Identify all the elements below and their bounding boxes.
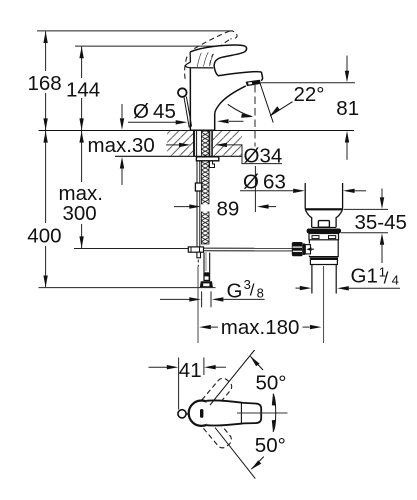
drain neck tab	[318, 221, 329, 228]
dimension 168	[45, 31, 47, 130]
drain slots	[312, 236, 319, 239]
svg-text:300: 300	[63, 202, 97, 225]
svg-text:Ø34: Ø34	[244, 145, 283, 168]
svg-text:50°: 50°	[255, 434, 286, 457]
dimension 35-45	[344, 208, 389, 210]
deck bottom line	[115, 155, 242, 157]
handle top view: dome	[189, 401, 214, 426]
spout underside	[215, 86, 246, 130]
drain taper	[306, 210, 312, 227]
hole edge lines	[193, 131, 195, 156]
bottom 50 leader	[251, 457, 263, 470]
svg-text:max.30: max.30	[88, 134, 155, 157]
pull rod knob	[178, 88, 187, 97]
supply hose braid	[201, 131, 209, 244]
pop-up drain flange	[304, 183, 306, 209]
drain seal flange (black)	[307, 229, 342, 234]
G3/8 nut	[200, 281, 213, 287]
bottom reference line 400	[39, 287, 216, 289]
drain ring nut	[310, 258, 337, 265]
lever left edge	[189, 52, 191, 62]
dimension 81	[346, 56, 348, 72]
visible dashed segment inside lever heel	[210, 54, 213, 65]
rod end pointer	[306, 247, 311, 251]
lever top edge tip and bottom edge with curl into spout top	[190, 45, 263, 80]
rod clip	[195, 183, 201, 191]
svg-text:81: 81	[336, 97, 359, 120]
svg-text:8: 8	[257, 285, 264, 300]
svg-text:Ø 63: Ø 63	[243, 171, 286, 194]
dashed raised lever (drawn first, partly hidden by body fill)	[185, 31, 237, 79]
knob top view	[178, 410, 186, 418]
svg-text:22°: 22°	[294, 83, 325, 106]
knob rod	[184, 97, 189, 127]
dimension D34	[166, 144, 180, 146]
spout level reference line (81)	[259, 82, 355, 84]
top 50 leader	[250, 356, 263, 370]
top reference line 168	[37, 30, 233, 32]
svg-text:89: 89	[217, 197, 240, 220]
top 50 deg diagonal	[210, 350, 255, 405]
deck hatch left	[167, 131, 193, 156]
base bottom	[190, 129, 214, 131]
aerator	[246, 80, 261, 86]
hose thread	[203, 272, 210, 281]
max300 bottom tick / rod line	[74, 248, 189, 250]
svg-text:168: 168	[28, 72, 62, 95]
drain tailpipe	[311, 265, 313, 294]
svg-text:50°: 50°	[256, 371, 287, 394]
faucet threaded shank	[195, 131, 212, 157]
horizontal pop-up rod	[204, 247, 294, 249]
dimension 144	[81, 47, 83, 130]
svg-text:G1: G1	[351, 264, 378, 287]
svg-text:4: 4	[392, 272, 399, 287]
faucet silhouette white fill	[190, 45, 262, 130]
washer under deck	[196, 157, 218, 161]
D63 dimension	[240, 190, 294, 192]
centerline	[237, 412, 288, 414]
faucet axis extension line	[197, 267, 199, 344]
dimension 400	[45, 131, 47, 287]
reference line 144	[75, 45, 244, 47]
hose nipple step	[210, 161, 215, 168]
22 degree arc	[228, 104, 252, 116]
drain lower body	[309, 240, 338, 257]
svg-text:400: 400	[27, 224, 61, 247]
22 degree incline line	[260, 83, 273, 123]
svg-text:41: 41	[179, 359, 202, 382]
dimension G1 1/4	[337, 286, 349, 290]
knurled knob	[292, 242, 303, 256]
dimension max.180	[199, 325, 211, 329]
svg-text:/: /	[250, 281, 255, 300]
dashed aerator axis line	[254, 85, 256, 212]
bottom 50 deg diagonal	[215, 428, 255, 479]
svg-text:Ø 45: Ø 45	[133, 100, 176, 123]
dimension max.30	[121, 104, 123, 118]
dome seam	[190, 67, 214, 69]
svg-text:144: 144	[66, 78, 100, 101]
dimension 89	[174, 206, 191, 208]
black lever slot	[200, 409, 203, 418]
drain neck bottom line	[312, 226, 336, 228]
deck top line	[39, 130, 355, 132]
rod clamp block	[188, 247, 203, 252]
handle blade	[207, 400, 262, 425]
braid gap for dimension 89 arrow	[201, 204, 211, 211]
dimension 41	[178, 358, 180, 410]
dashed handle rotated down	[198, 411, 234, 450]
angular span arc	[273, 394, 276, 432]
svg-text:G: G	[227, 279, 243, 302]
drain centerline	[323, 266, 325, 343]
pull rod	[196, 161, 198, 247]
stub below clamp	[197, 252, 201, 258]
faucet body outline	[189, 68, 191, 130]
deck hatch right	[213, 131, 242, 156]
supply hose tube	[203, 253, 205, 273]
drain body	[309, 234, 339, 240]
lever shading strokes	[197, 52, 213, 67]
svg-text:/: /	[384, 268, 389, 287]
22 degree leader	[270, 102, 293, 116]
dashed handle rotated up	[198, 376, 234, 415]
dimension G3/8	[201, 291, 203, 307]
svg-text:35-45: 35-45	[355, 211, 407, 234]
lever heel bumps	[186, 62, 191, 67]
dashed rod continuation	[197, 260, 199, 267]
dimension max.300	[81, 131, 83, 248]
svg-text:max.180: max.180	[221, 316, 300, 339]
